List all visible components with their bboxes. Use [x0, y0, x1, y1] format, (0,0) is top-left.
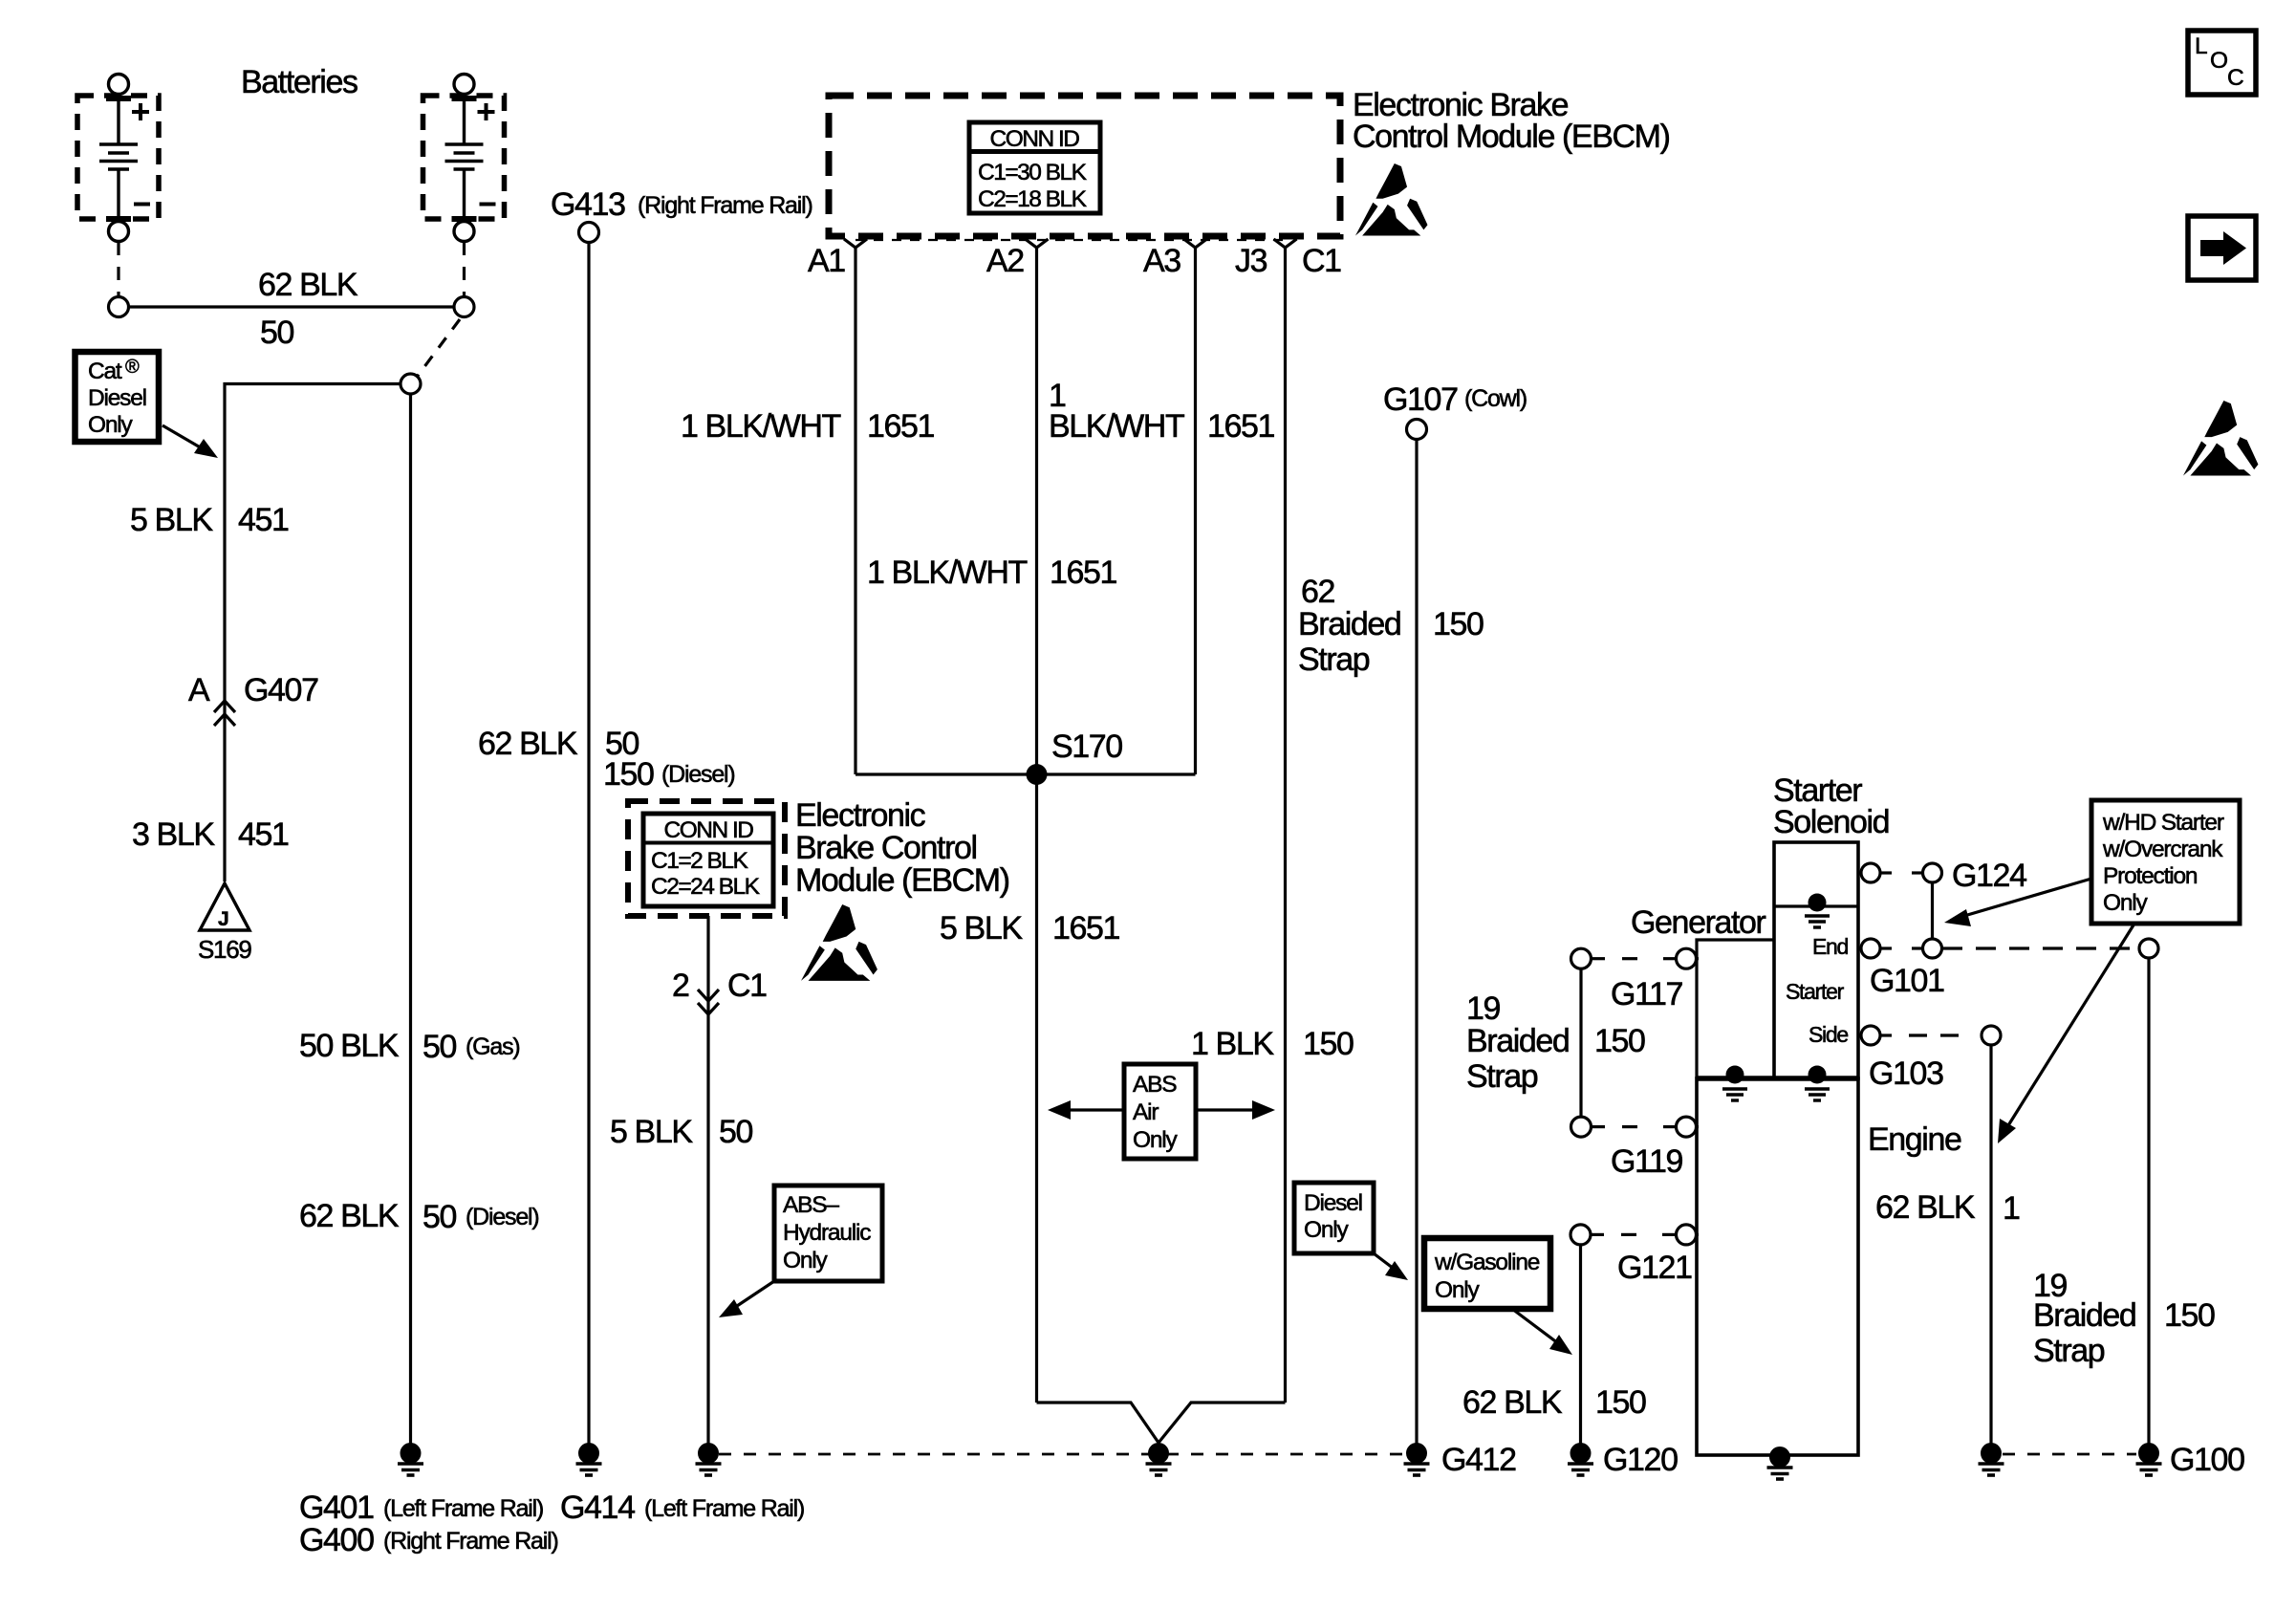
pin A2: [1026, 239, 1049, 248]
svg-text:Cat: Cat: [88, 359, 122, 384]
wire: ground bus dashed right: [2003, 1453, 2136, 1456]
svg-text:62 BLK: 62 BLK: [478, 726, 578, 762]
svg-text:L: L: [2195, 33, 2208, 59]
arrow: ABS Air left: [1048, 1100, 1124, 1120]
connector: 2 C1 double chevron: [698, 990, 719, 1014]
arrow: Cat box to wire: [162, 425, 218, 458]
svg-text:BLK/WHT: BLK/WHT: [1049, 408, 1184, 445]
svg-text:Strap: Strap: [1466, 1058, 1538, 1095]
module: EBCM top dashed box: [829, 96, 1340, 236]
svg-text:J: J: [218, 908, 229, 930]
connector: G407 double chevron: [214, 701, 235, 726]
svg-text:w/Overcrank: w/Overcrank: [2102, 837, 2223, 862]
module: EBCM lower dashed box: [628, 801, 785, 916]
svg-text:CONN ID: CONN ID: [990, 126, 1080, 152]
svg-text:CONN ID: CONN ID: [664, 817, 754, 843]
svg-text:1651: 1651: [1050, 555, 1117, 591]
svg-text:Protection: Protection: [2103, 863, 2198, 889]
icon: ESD triangle (lower EBCM): [801, 904, 877, 981]
arrow: ABS Air right: [1196, 1100, 1275, 1120]
svg-text:1 BLK: 1 BLK: [1191, 1026, 1274, 1062]
splice: S170 junction dot: [1027, 764, 1048, 785]
svg-text:3 BLK: 3 BLK: [132, 816, 215, 853]
box: ABS Air Only: [1124, 1064, 1196, 1159]
svg-text:End: End: [1812, 934, 1849, 959]
wire: battery 1 negative lead (dashed): [117, 242, 119, 296]
svg-text:2: 2: [672, 968, 689, 1004]
ground: solenoid internal: [1805, 894, 1830, 928]
svg-text:50: 50: [422, 1199, 457, 1235]
wire: G121 to G120 ground: [1579, 1245, 1582, 1444]
svg-text:Diesel: Diesel: [88, 385, 146, 411]
svg-text:G117: G117: [1611, 976, 1683, 1012]
svg-text:Only: Only: [2103, 890, 2149, 916]
svg-text:Control Module (EBCM): Control Module (EBCM): [1353, 119, 1670, 155]
svg-text:62 BLK: 62 BLK: [1875, 1189, 1976, 1226]
wire: G117 to G119: [1579, 969, 1582, 1118]
box: w/Gasoline Only: [1424, 1238, 1550, 1309]
ground: G412: [1404, 1444, 1430, 1475]
box: ABS-Hydraulic Only: [774, 1186, 882, 1281]
icon: arrow box: [2188, 216, 2256, 280]
svg-text:Diesel: Diesel: [1304, 1190, 1362, 1216]
svg-text:(Left Frame Rail): (Left Frame Rail): [644, 1495, 804, 1522]
svg-text:Solenoid: Solenoid: [1773, 804, 1889, 840]
svg-text:®: ®: [125, 357, 140, 378]
svg-text:G121: G121: [1617, 1250, 1692, 1286]
arrow: ABS-Hydraulic to pigtail: [719, 1281, 774, 1317]
node: G107 terminal circle: [1407, 420, 1427, 440]
svg-text:150: 150: [1594, 1023, 1645, 1059]
svg-text:A1: A1: [808, 243, 845, 279]
arrow: w/Gasoline to G120 wire: [1512, 1309, 1572, 1355]
svg-text:62 BLK: 62 BLK: [299, 1198, 400, 1234]
svg-text:(Right Frame Rail): (Right Frame Rail): [383, 1528, 558, 1555]
wire: G107 to G412: [1415, 440, 1418, 1444]
svg-text:C2=24 BLK: C2=24 BLK: [651, 874, 761, 900]
wire: generator/solenoid base thick line: [1697, 1076, 1858, 1081]
table: CONN ID (top EBCM): [969, 122, 1100, 213]
svg-text:O: O: [2210, 48, 2228, 74]
svg-text:150: 150: [1595, 1384, 1646, 1421]
svg-text:A2: A2: [986, 243, 1024, 279]
svg-text:C1=2 BLK: C1=2 BLK: [651, 848, 749, 874]
pin A1: [844, 239, 867, 248]
svg-text:G100: G100: [2170, 1442, 2244, 1478]
svg-text:w/Gasoline: w/Gasoline: [1434, 1250, 1540, 1275]
svg-text:C: C: [2227, 65, 2244, 91]
node: battery bus left terminal: [109, 297, 129, 317]
svg-text:G412: G412: [1441, 1442, 1516, 1478]
svg-text:Braided: Braided: [1466, 1023, 1569, 1059]
svg-text:Electronic: Electronic: [795, 797, 926, 834]
arrow: w/HD box to engine strap: [1998, 924, 2134, 1143]
wire: S170 horizontal bus: [856, 772, 1196, 775]
svg-text:451: 451: [238, 816, 289, 853]
svg-text:J3: J3: [1235, 243, 1267, 279]
svg-text:Only: Only: [1435, 1277, 1481, 1303]
ground: engine strap ground: [1979, 1444, 2004, 1475]
box: Diesel Only: [1294, 1183, 1374, 1253]
box: generator: [1697, 940, 1774, 1078]
icon: LOC box: [2188, 31, 2256, 95]
svg-text:Generator: Generator: [1631, 904, 1766, 941]
wire: pin header dashed line: [856, 239, 1285, 241]
ground: S170 branch ground: [1146, 1444, 1172, 1475]
wire: 5 BLK 451 branch (left): [225, 384, 401, 882]
svg-text:A3: A3: [1143, 243, 1180, 279]
svg-text:G407: G407: [244, 672, 318, 708]
svg-text:Side: Side: [1809, 1022, 1848, 1047]
svg-text:G400: G400: [299, 1522, 374, 1558]
ground: lower EBCM ground: [696, 1444, 722, 1475]
svg-text:A: A: [188, 672, 210, 708]
svg-text:G413: G413: [551, 186, 625, 223]
box: starter solenoid: [1774, 842, 1858, 1078]
wire: A1 to S170: [854, 248, 856, 774]
connector: G119 pair: [1571, 1117, 1700, 1137]
connector: Side row circles dashed: [1861, 1026, 2001, 1045]
svg-text:Braided: Braided: [1298, 606, 1400, 642]
svg-text:(Right Frame Rail): (Right Frame Rail): [638, 192, 812, 219]
node: G413 terminal circle: [579, 223, 599, 243]
svg-text:C2=18 BLK: C2=18 BLK: [978, 186, 1088, 212]
table: CONN ID (lower EBCM): [643, 814, 773, 906]
wire: J3/C1 down: [1284, 248, 1287, 1403]
svg-text:(Left Frame Rail): (Left Frame Rail): [383, 1495, 543, 1522]
wire: A2/J3 join V to ground: [1037, 1403, 1159, 1443]
icon: ESD triangle (margin): [2183, 401, 2258, 475]
wire: battery 2 negative lead (dashed): [463, 242, 466, 296]
ground: engine base: [1767, 1447, 1793, 1479]
battery 1 (left): [77, 75, 159, 242]
pin J3 connector C1: [1274, 239, 1297, 248]
wire: lower EBCM pigtail: [706, 916, 709, 1444]
svg-text:Hydraulic: Hydraulic: [783, 1220, 871, 1246]
svg-text:5 BLK: 5 BLK: [610, 1114, 693, 1150]
box: Cat Diesel Only: [76, 352, 160, 442]
svg-text:G101: G101: [1870, 963, 1944, 999]
svg-text:C1: C1: [1302, 243, 1341, 279]
svg-text:Module (EBCM): Module (EBCM): [795, 862, 1009, 899]
connector: G121 pair: [1570, 1225, 1699, 1245]
svg-text:ABS–: ABS–: [783, 1192, 839, 1218]
svg-text:C1: C1: [727, 968, 767, 1004]
wire: dashed drop to switch node: [418, 319, 460, 376]
svg-text:1651: 1651: [1052, 910, 1120, 946]
svg-text:150: 150: [1303, 1026, 1354, 1062]
svg-text:(Diesel): (Diesel): [466, 1204, 539, 1230]
ground: G414: [576, 1444, 602, 1475]
svg-text:Starter: Starter: [1786, 979, 1845, 1004]
wire: G124 to End row: [1931, 882, 1934, 939]
svg-text:ABS: ABS: [1133, 1072, 1177, 1098]
svg-text:w/HD Starter: w/HD Starter: [2102, 810, 2224, 836]
svg-text:Batteries: Batteries: [241, 64, 357, 100]
wire: solenoid divider: [1774, 904, 1858, 907]
svg-text:G119: G119: [1611, 1143, 1683, 1180]
svg-text:451: 451: [238, 502, 289, 538]
svg-text:G103: G103: [1869, 1055, 1943, 1092]
node: switch node circle: [401, 374, 421, 394]
svg-text:G120: G120: [1603, 1442, 1678, 1478]
ground: generator base: [1722, 1066, 1747, 1101]
svg-text:19: 19: [1466, 990, 1501, 1027]
ground: G401/G400: [398, 1444, 423, 1475]
svg-text:50: 50: [260, 315, 294, 351]
svg-text:5 BLK: 5 BLK: [940, 910, 1023, 946]
arrow: w/HD box to G124 junction: [1944, 879, 2091, 926]
svg-text:1 BLK/WHT: 1 BLK/WHT: [867, 555, 1028, 591]
svg-text:Only: Only: [88, 412, 134, 438]
wire: G100 strap: [2147, 958, 2150, 1444]
battery 2 (right): [423, 75, 505, 242]
svg-text:S170: S170: [1051, 729, 1122, 765]
svg-text:5 BLK: 5 BLK: [130, 502, 213, 538]
svg-text:62 BLK: 62 BLK: [1462, 1384, 1563, 1421]
svg-text:50: 50: [719, 1114, 753, 1150]
svg-text:50 BLK: 50 BLK: [299, 1028, 400, 1064]
svg-text:150: 150: [2164, 1297, 2215, 1334]
wire: G413 to G414 ground: [587, 243, 590, 1444]
svg-text:(Cowl): (Cowl): [1464, 385, 1527, 412]
ground: G120: [1568, 1444, 1593, 1475]
svg-text:(Diesel): (Diesel): [661, 761, 735, 788]
svg-text:G124: G124: [1952, 858, 2026, 894]
connector: G117 pair: [1571, 948, 1700, 968]
svg-text:1651: 1651: [1207, 408, 1275, 445]
svg-text:G107: G107: [1383, 381, 1458, 418]
svg-text:150: 150: [603, 756, 654, 793]
pin A3: [1184, 239, 1207, 248]
svg-text:Strap: Strap: [1298, 642, 1370, 678]
svg-text:150: 150: [1433, 606, 1484, 642]
svg-text:C1=30 BLK: C1=30 BLK: [978, 160, 1088, 185]
svg-text:Strap: Strap: [2033, 1333, 2105, 1369]
svg-text:1: 1: [2003, 1190, 2020, 1227]
icon: ESD triangle (top EBCM): [1355, 163, 1427, 235]
wire: 62 BLK 50 battery bus: [129, 305, 455, 308]
connector: G124 pair: [1861, 863, 1942, 882]
svg-text:62 BLK: 62 BLK: [258, 267, 358, 303]
svg-text:1 BLK/WHT: 1 BLK/WHT: [681, 408, 841, 445]
svg-text:Only: Only: [783, 1248, 829, 1273]
box: engine block: [1697, 1078, 1858, 1455]
svg-text:G401: G401: [299, 1490, 374, 1526]
wire: 62 BLK 1 engine ground strap: [1989, 1045, 1992, 1444]
wire: A2 down: [1035, 248, 1038, 1403]
svg-text:Only: Only: [1133, 1127, 1179, 1153]
splice: S169 triangle J: [198, 883, 251, 964]
svg-text:62: 62: [1301, 574, 1335, 610]
svg-text:(Gas): (Gas): [466, 1033, 520, 1060]
connector: End row circles and dashed to engine: [1861, 939, 2158, 958]
svg-text:S169: S169: [198, 935, 251, 964]
ground: solenoid base: [1805, 1066, 1830, 1101]
svg-text:50: 50: [422, 1029, 457, 1065]
svg-text:G414: G414: [560, 1490, 635, 1526]
wire: battery ground feed down to G401: [409, 394, 412, 1444]
node: battery bus right terminal: [454, 297, 474, 317]
svg-text:Brake Control: Brake Control: [795, 830, 977, 866]
svg-text:Air: Air: [1133, 1099, 1159, 1125]
box: w/HD Starter w/Overcrank Protection Only: [2091, 800, 2240, 924]
ground: G100: [2136, 1444, 2162, 1475]
arrow: Diesel Only to G412 wire: [1374, 1253, 1408, 1280]
svg-text:Only: Only: [1304, 1217, 1350, 1243]
wire: A3 to S170 bus: [1194, 248, 1197, 774]
svg-text:Engine: Engine: [1868, 1121, 1961, 1158]
svg-text:Braided: Braided: [2033, 1297, 2135, 1334]
wire: ground bus dashed left: [719, 1453, 1405, 1456]
svg-text:1651: 1651: [867, 408, 935, 445]
